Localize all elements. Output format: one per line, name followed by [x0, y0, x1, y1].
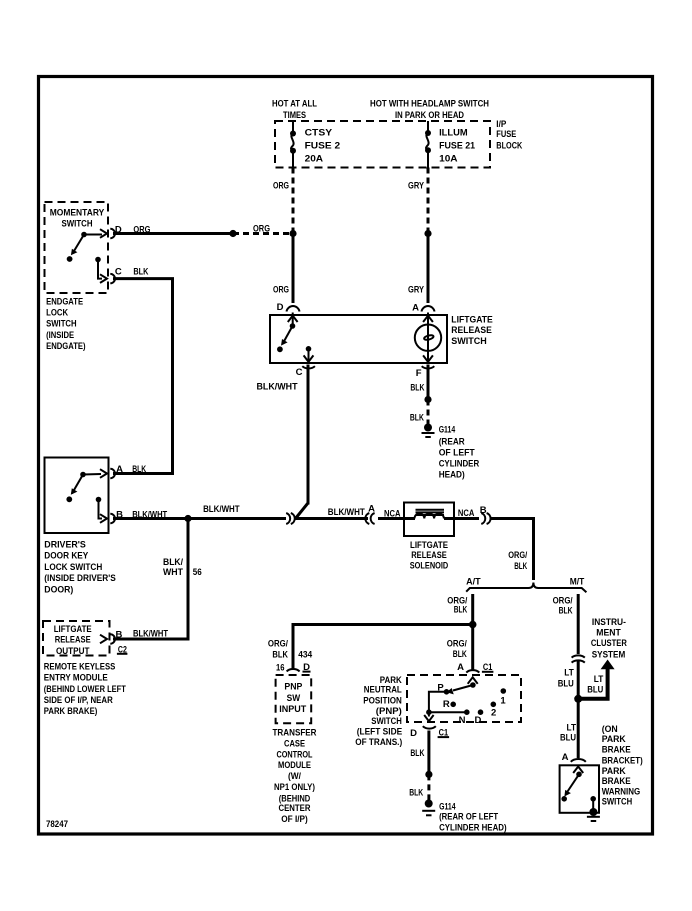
svg-text:G114: G114 [439, 801, 456, 812]
lamp circle of liftgate release switch [415, 325, 441, 351]
terminal D arc at TCCM [287, 669, 300, 671]
svg-text:CASE: CASE [284, 739, 305, 750]
wire BLK/WHT from driver's switch B to inline splice [113, 517, 286, 520]
wire LT BLU from connector to junction [577, 660, 580, 699]
liftgate release switch arm from D [277, 313, 298, 353]
svg-text:C: C [296, 367, 303, 378]
svg-text:BLK: BLK [132, 464, 146, 475]
svg-text:ORG/: ORG/ [268, 639, 288, 650]
svg-text:SOLENOID: SOLENOID [410, 560, 449, 571]
svg-text:DOOR KEY: DOOR KEY [44, 551, 89, 562]
svg-text:LOCK: LOCK [46, 308, 68, 319]
label ORG/ BLK on M/T branch [553, 596, 573, 617]
wire GRY dashed from fuse 21 [427, 168, 430, 234]
label ENDGATE LOCK SWITCH (INSIDE ENDGATE) [46, 297, 86, 352]
PNP switch entry chevron and pivot [468, 677, 478, 688]
label ORG/ BLK 434 16 at TCCM [268, 639, 313, 674]
connector label D underlined at TCCM [303, 662, 311, 673]
svg-text:BLK/WHT: BLK/WHT [203, 504, 240, 515]
connector label C2 [117, 644, 128, 655]
svg-text:PNP: PNP [284, 682, 303, 693]
svg-text:BLK: BLK [133, 267, 148, 278]
node splice on BLK wire [425, 771, 432, 778]
svg-text:ENDGATE: ENDGATE [46, 297, 83, 308]
svg-text:(REAR: (REAR [439, 437, 465, 448]
svg-text:CLUSTER: CLUSTER [591, 638, 627, 649]
wire ORG dashed from fuse 2 [292, 168, 295, 234]
contact 2 [491, 702, 497, 719]
svg-text:IN PARK OR HEAD: IN PARK OR HEAD [395, 110, 464, 121]
svg-text:BRAKE: BRAKE [602, 745, 631, 756]
svg-text:ORG: ORG [273, 181, 289, 192]
svg-text:BLU: BLU [558, 679, 574, 690]
svg-text:SWITCH: SWITCH [451, 336, 487, 347]
label TRANSFER CASE CONTROL MODULE (W/ NP1 ONLY) (BEHIND CENTER OF I/P) [273, 728, 317, 826]
svg-text:D: D [410, 728, 417, 739]
wire ORG from momentary switch D to splice [113, 232, 233, 235]
label DRIVER'S DOOR KEY LOCK SWITCH (INSIDE DRIVER'S DOOR) [44, 539, 116, 595]
wire ORG/BLK M/T branch down [577, 594, 580, 654]
label HOT WITH HEADLAMP SWITCH IN PARK OR HEAD [370, 99, 489, 122]
label CTSY FUSE 2 20A [305, 127, 341, 164]
inline splice connector arcs on BLK/WHT run [286, 513, 295, 524]
svg-text:(BEHIND LOWER LEFT: (BEHIND LOWER LEFT [44, 684, 126, 695]
wire BLK dashed to ground [427, 400, 430, 427]
svg-text:F: F [416, 368, 422, 379]
node junction on A/T branch [469, 621, 477, 629]
contact 1 [500, 688, 506, 706]
svg-text:ILLUM: ILLUM [439, 127, 468, 138]
svg-text:FUSE 2: FUSE 2 [305, 140, 341, 151]
svg-text:INPUT: INPUT [279, 704, 306, 715]
label B BLK/WHT at C2 [115, 628, 168, 640]
svg-text:N: N [459, 715, 466, 726]
terminal D arc below PNP box [423, 726, 436, 728]
momentary switch lower contact to terminal C [95, 257, 102, 279]
svg-text:78247: 78247 [46, 819, 68, 830]
svg-text:GRY: GRY [408, 181, 425, 192]
label LT BLU on cluster branch [587, 674, 603, 695]
wire BLK dashed to ground [427, 774, 430, 801]
svg-text:C: C [115, 267, 122, 278]
terminal C connector arc below box [302, 366, 315, 368]
svg-text:(INSIDE: (INSIDE [46, 330, 74, 341]
label I/P FUSE BLOCK [496, 119, 522, 152]
svg-text:G114: G114 [439, 425, 456, 436]
terminal A connector arc on switch box [422, 306, 435, 311]
svg-text:LT: LT [564, 667, 574, 678]
label LIFTGATE RELEASE SWITCH [451, 315, 493, 348]
svg-text:BLK: BLK [409, 788, 423, 799]
liftgate release switch C contact [304, 346, 314, 362]
svg-text:SWITCH: SWITCH [62, 219, 93, 230]
svg-text:R: R [443, 699, 450, 710]
label ORG/ BLK on A/T branch [447, 596, 467, 616]
I/P fuse block box [275, 121, 490, 168]
svg-text:PARK BRAKE): PARK BRAKE) [44, 706, 98, 717]
label PNP SW INPUT [279, 682, 306, 715]
svg-text:OF TRANS.): OF TRANS.) [355, 737, 402, 748]
svg-text:TRANSFER: TRANSFER [273, 728, 317, 739]
ground at park brake switch [587, 808, 600, 821]
ground G114 (lower) [422, 800, 435, 816]
terminal B of liftgate release output: chevron and arc [100, 634, 115, 643]
liftgate release solenoid box [404, 503, 454, 537]
label ORG/ BLK above PNP switch [447, 639, 467, 661]
terminal A arc at PNP switch [466, 670, 479, 672]
PNP switch arm to P contact [447, 685, 473, 694]
svg-text:MENT: MENT [596, 627, 621, 638]
terminal D connector arc on switch box [287, 306, 300, 311]
svg-text:ENDGATE): ENDGATE) [46, 341, 86, 352]
svg-text:2: 2 [491, 708, 496, 719]
momentary switch terminal D chevron and connector arc [100, 229, 115, 238]
inline connector on M/T branch [572, 655, 585, 662]
svg-text:SWITCH: SWITCH [371, 716, 402, 727]
svg-text:A: A [412, 303, 419, 314]
wire BLK/WHT 56 down to keyless entry module [113, 519, 188, 640]
svg-text:SWITCH: SWITCH [46, 319, 77, 330]
transfer case control module box (PNP SW INPUT) [276, 675, 312, 723]
solenoid core lines [416, 510, 445, 515]
svg-text:LOCK SWITCH: LOCK SWITCH [44, 562, 102, 573]
label PARK NEUTRAL POSITION (PNP) SWITCH (LEFT SIDE OF TRANS.) [355, 675, 402, 748]
svg-text:CTSY: CTSY [305, 127, 333, 138]
svg-text:ORG: ORG [253, 224, 270, 235]
svg-text:TIMES: TIMES [283, 110, 306, 121]
svg-text:20A: 20A [305, 154, 324, 165]
park neutral position switch box [407, 675, 521, 722]
svg-text:(W/: (W/ [288, 771, 301, 782]
svg-text:(LEFT SIDE: (LEFT SIDE [357, 727, 403, 738]
park brake switch fixed contact [590, 796, 596, 811]
node junction at driver's B wire [184, 515, 191, 522]
ground G114 (upper) [422, 424, 435, 438]
wire through solenoid to connector B [444, 517, 479, 520]
svg-text:MOMENTARY: MOMENTARY [50, 208, 105, 219]
svg-text:434: 434 [298, 650, 313, 661]
contact R [443, 699, 456, 710]
svg-text:A/T: A/T [466, 577, 481, 588]
svg-text:RELEASE: RELEASE [451, 325, 492, 336]
svg-text:BLK: BLK [410, 413, 424, 424]
svg-text:CENTER: CENTER [279, 803, 311, 814]
label LT BLU [558, 667, 574, 689]
wire BLK from PNP D terminal [427, 731, 430, 775]
fuse ILLUM FUSE 21 10A [425, 130, 431, 168]
wire LT BLU down to park brake warning switch [577, 699, 580, 758]
svg-text:SW: SW [287, 693, 301, 704]
park brake switch entry chevron [573, 767, 583, 774]
svg-text:HEAD): HEAD) [439, 469, 465, 480]
svg-text:NCA: NCA [458, 508, 475, 519]
svg-text:INSTRU-: INSTRU- [592, 617, 626, 628]
svg-text:16: 16 [276, 662, 285, 673]
wire branch to instrument cluster with arrow [578, 660, 614, 699]
svg-text:A: A [116, 464, 123, 475]
wire GRY solid down to liftgate release switch A [427, 234, 430, 304]
svg-text:OUTPUT: OUTPUT [56, 646, 90, 657]
svg-text:B: B [480, 505, 487, 516]
svg-text:CYLINDER HEAD): CYLINDER HEAD) [439, 823, 507, 834]
svg-text:SYSTEM: SYSTEM [592, 650, 626, 661]
svg-text:SIDE OF I/P, NEAR: SIDE OF I/P, NEAR [44, 695, 113, 706]
label D and C1 at PNP output [410, 728, 449, 740]
wire ORG/BLK A/T branch down [471, 594, 474, 671]
fuse CTSY FUSE 2 20A [290, 131, 296, 168]
svg-text:NP1 ONLY): NP1 ONLY) [274, 782, 315, 793]
wire diagonal from liftgate switch C branch joining main run [296, 503, 309, 519]
svg-text:FUSE: FUSE [496, 129, 516, 140]
wire ORG/BLK from solenoid B to split [490, 519, 534, 581]
svg-text:M/T: M/T [570, 577, 585, 588]
wire from IN PARK OR HEAD into fuse block [427, 121, 429, 133]
node splice on ORG run [229, 230, 236, 237]
svg-text:OF I/P): OF I/P) [281, 814, 308, 825]
park brake switch arm [561, 772, 581, 802]
wire BLK/WHT from splice to connector A [295, 517, 369, 520]
svg-text:B: B [115, 629, 122, 640]
svg-text:BLK: BLK [454, 605, 468, 616]
terminal A arc at park brake switch [571, 759, 586, 762]
wire from P to output lead [429, 692, 447, 712]
wire BLK/WHT from C terminal down [307, 365, 310, 505]
svg-text:NEUTRAL: NEUTRAL [364, 685, 402, 696]
wire BLK from F terminal [427, 365, 430, 400]
node junction at PNP output [426, 709, 432, 715]
driver's switch terminal B chevron and connector arc [100, 514, 115, 523]
label LIFTGATE RELEASE SOLENOID [410, 540, 449, 571]
wire ORG dashed from splice to fuse-2 feed junction [233, 232, 293, 235]
park brake warning switch box [560, 765, 599, 813]
svg-text:ORG/: ORG/ [508, 550, 527, 561]
driver's door key lock switch box [45, 458, 109, 534]
svg-text:ORG: ORG [273, 285, 289, 296]
label ORG/ BLK [508, 550, 527, 572]
liftgate release switch lamp branch with arrows [423, 313, 433, 362]
svg-text:LIFTGATE: LIFTGATE [54, 624, 92, 635]
label HOT AT ALL TIMES [272, 99, 317, 122]
contact N [459, 709, 470, 726]
driver's switch arm [66, 472, 101, 502]
wire BLK from momentary switch C down to driver's door key lock switch A [113, 279, 173, 474]
svg-text:BLK/WHT: BLK/WHT [328, 507, 365, 518]
wire from HOT AT ALL TIMES into fuse block [292, 121, 294, 133]
label A BLK [116, 464, 146, 475]
momentary switch arm [67, 232, 102, 262]
label MOMENTARY SWITCH [50, 208, 105, 230]
connector A arcs at solenoid [365, 513, 374, 524]
node junction on LT BLU wire [574, 695, 582, 703]
label D ORG at momentary switch [115, 225, 151, 236]
label LT BLU [560, 722, 576, 743]
label INSTRU-MENT CLUSTER SYSTEM [591, 617, 627, 661]
svg-text:ENTRY MODULE: ENTRY MODULE [44, 673, 108, 684]
momentary switch box [45, 202, 109, 293]
svg-text:HOT WITH HEADLAMP SWITCH: HOT WITH HEADLAMP SWITCH [370, 99, 489, 110]
label G114 (REAR OF LEFT CYLINDER HEAD) [439, 425, 480, 481]
momentary switch terminal C chevron and connector arc [100, 274, 115, 283]
svg-text:WHT: WHT [163, 567, 183, 578]
svg-text:DOOR): DOOR) [44, 585, 73, 596]
svg-text:LIFTGATE: LIFTGATE [451, 315, 493, 326]
solenoid coil [415, 514, 444, 519]
svg-text:A: A [368, 504, 375, 515]
svg-text:BLOCK: BLOCK [496, 141, 522, 152]
node splice on ORG wire [289, 230, 296, 237]
wire ORG solid down to liftgate release switch D [292, 234, 295, 304]
svg-text:D: D [277, 302, 284, 313]
svg-text:(REAR OF LEFT: (REAR OF LEFT [439, 812, 498, 823]
svg-text:BLK: BLK [410, 383, 424, 394]
svg-text:CYLINDER: CYLINDER [439, 459, 480, 470]
svg-text:10A: 10A [439, 154, 458, 165]
split brace A/T M/T [466, 583, 586, 593]
svg-text:BLK: BLK [453, 649, 467, 660]
label (ON PARK BRAKE BRACKET) PARK BRAKE WARNING SWITCH [602, 724, 643, 808]
svg-text:BLK/WHT: BLK/WHT [257, 382, 298, 393]
svg-text:BLU: BLU [560, 732, 576, 743]
wire into solenoid [378, 517, 415, 520]
label BLK/ WHT 56 [163, 557, 202, 578]
liftgate release switch box [270, 315, 447, 363]
svg-text:OF LEFT: OF LEFT [439, 448, 475, 459]
svg-text:BLU: BLU [587, 685, 603, 696]
node splice on GRY wire [424, 230, 431, 237]
contact P [437, 683, 449, 695]
svg-text:D: D [474, 715, 481, 726]
svg-text:MODULE: MODULE [278, 760, 311, 771]
svg-text:BLK: BLK [272, 650, 288, 661]
svg-text:BLK/WHT: BLK/WHT [133, 628, 168, 639]
label REMOTE KEYLESS ENTRY MODULE (BEHIND LOWER LEFT SIDE OF I/P, NEAR PARK BRAKE) [44, 662, 126, 718]
svg-text:A: A [457, 662, 464, 673]
wire ORG/BLK to transfer case control module [293, 625, 473, 670]
svg-text:ORG/: ORG/ [447, 639, 467, 650]
svg-text:RELEASE: RELEASE [55, 635, 91, 646]
svg-text:REMOTE KEYLESS: REMOTE KEYLESS [44, 662, 116, 673]
svg-text:GRY: GRY [408, 285, 425, 296]
border frame [39, 77, 653, 835]
svg-text:SWITCH: SWITCH [602, 797, 633, 808]
svg-text:CONTROL: CONTROL [277, 749, 313, 760]
contact D [474, 709, 483, 726]
node splice on BLK wire [424, 396, 431, 403]
svg-text:BLK: BLK [559, 606, 573, 617]
label B BLK/WHT [116, 509, 167, 520]
svg-text:LT: LT [594, 674, 604, 685]
connector B arcs at solenoid [481, 513, 490, 524]
terminal F connector arc below box [422, 366, 435, 368]
svg-text:BLK: BLK [410, 748, 424, 759]
label G114 (REAR OF LEFT CYLINDER HEAD) [439, 801, 507, 833]
driver's switch terminal A chevron and connector arc [100, 469, 115, 478]
driver's switch lower contact to terminal B [96, 497, 102, 519]
label C BLK at momentary switch [115, 267, 149, 278]
svg-text:HOT AT ALL: HOT AT ALL [272, 99, 317, 110]
label LIFTGATE RELEASE OUTPUT [54, 624, 92, 657]
svg-text:A: A [562, 752, 569, 763]
liftgate release output box (remote keyless entry module) [43, 621, 110, 656]
svg-text:56: 56 [193, 567, 202, 578]
label ILLUM FUSE 21 10A [439, 127, 476, 164]
svg-text:(INSIDE DRIVER'S: (INSIDE DRIVER'S [44, 573, 116, 584]
svg-text:1: 1 [500, 696, 506, 707]
svg-text:DRIVER'S: DRIVER'S [44, 539, 86, 550]
svg-text:FUSE 21: FUSE 21 [439, 140, 476, 151]
svg-text:BLK: BLK [514, 561, 527, 572]
label A and C1 at PNP switch [457, 662, 493, 673]
wire from output junction to N contact [429, 711, 467, 713]
PNP output chevron down [424, 712, 433, 721]
